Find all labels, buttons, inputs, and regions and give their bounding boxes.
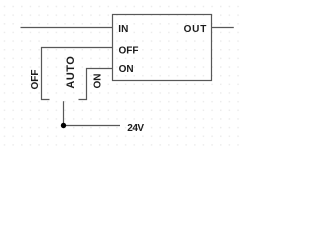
wire switch common AUTO [63, 101, 65, 125]
svg-text:OFF: OFF [30, 70, 41, 90]
wire OUT [212, 27, 234, 29]
wire OFF pin to switch OFF contact [42, 48, 113, 100]
wire ON pin to switch ON contact [79, 69, 113, 100]
svg-text:24V: 24V [127, 123, 144, 134]
junction node [61, 123, 66, 128]
controller U1 box [113, 15, 212, 81]
svg-text:ON: ON [119, 64, 134, 75]
svg-text:IN: IN [118, 24, 128, 35]
wire 24V feed [64, 125, 121, 127]
wire IN [21, 27, 113, 29]
svg-text:OFF: OFF [119, 45, 139, 56]
svg-text:ON: ON [92, 74, 103, 89]
svg-text:OUT: OUT [184, 24, 208, 35]
svg-text:AUTO: AUTO [65, 56, 77, 89]
